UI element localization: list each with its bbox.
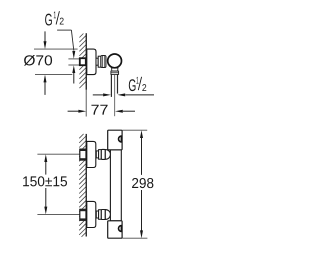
shower outlet pipe G1/2 [111, 75, 112, 97]
outlet neck below valve [112, 68, 118, 71]
supply elbow in wall 2 (front view) [80, 209, 86, 220]
wall face line (front view) [86, 134, 87, 237]
bottom handle button [119, 226, 122, 232]
union cylinder 1 [96, 151, 98, 158]
supply stub extension lines [68, 58, 79, 60]
supply elbow in wall 1 (front view) [80, 149, 86, 160]
union nut (top view) [101, 56, 106, 68]
union cylinder 2 [96, 211, 98, 218]
outlet nipple bands [111, 71, 119, 74]
union dome 2 [105, 210, 110, 220]
label G 1/2 (top) [45, 14, 52, 26]
top handle [108, 130, 122, 150]
union nut 1 [101, 149, 105, 159]
escutcheon Ø70 (top view) [87, 49, 96, 75]
union ring 2 [99, 210, 102, 220]
top handle button [119, 136, 122, 142]
escutcheon 1 (front view) [87, 141, 96, 167]
wall face extension line (below wall) [85, 90, 87, 117]
pipe centerline extension [114, 75, 116, 116]
wall hatch (top view) [79, 34, 86, 89]
dimension 150 extension line 1 [37, 153, 85, 155]
G1/2 supply thread dimension arrows [72, 51, 75, 59]
union nut 2 [101, 210, 105, 220]
dimension 298 line and arrows [141, 137, 143, 175]
dimension 77 [68, 110, 79, 112]
union dome 1 [105, 150, 110, 160]
union cylinder (top view) [96, 58, 98, 65]
label G 1/2 (right) [129, 79, 136, 91]
wall face line (top view) [86, 33, 87, 90]
dimension 150 extension line 2 [37, 213, 85, 215]
label 298 [132, 178, 153, 188]
label 77 [91, 105, 107, 115]
label 150±15 [23, 176, 67, 186]
valve body circle (top view) [108, 54, 122, 68]
leader from G1/2 label [57, 29, 71, 31]
dimension G1/2 pipe arrows [93, 94, 103, 96]
supply elbow square in wall (top view) [80, 58, 86, 65]
wall hatch (front view) [79, 134, 86, 237]
label Ø70 [24, 55, 52, 66]
dimension 150±15 line and arrows [45, 161, 47, 175]
dimension Ø70 extension lines [34, 48, 78, 50]
escutcheon 2 (front view) [87, 201, 96, 227]
thermostat body tube (front view) [110, 150, 121, 221]
union ring 1 [99, 150, 102, 160]
bottom handle [108, 221, 122, 238]
union ring (top view) [98, 56, 101, 67]
dimension Ø70 arrows [44, 31, 46, 42]
dimension 298 extension lines [122, 129, 147, 131]
